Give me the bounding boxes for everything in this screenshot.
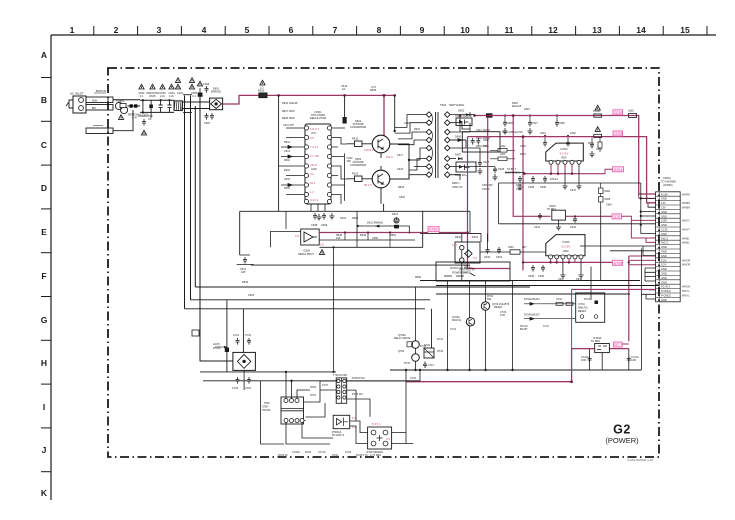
filter top wire	[140, 99, 174, 101]
svg-text:G: G	[41, 315, 48, 325]
svg-text:GND: GND	[661, 276, 667, 280]
svg-text:C713: C713	[450, 328, 457, 331]
page ref box R1	[613, 110, 623, 115]
svg-text:IC606: IC606	[303, 249, 310, 253]
secondary vertical tie 1	[469, 123, 471, 132]
black drop right of F602	[393, 94, 396, 131]
svg-text:C646: C646	[538, 275, 545, 278]
horizontal bus y265	[251, 264, 470, 266]
svg-text:Q705: Q705	[398, 350, 405, 353]
labels near Q705	[404, 345, 427, 365]
svg-text:9V2-2: 9V2-2	[661, 236, 668, 240]
secondary output wires	[450, 115, 495, 180]
magenta vertical up from bottom rail	[571, 289, 573, 348]
svg-text:C652: C652	[596, 148, 603, 151]
D605 C624 labels above busA	[512, 102, 530, 111]
IC604 label	[547, 205, 556, 211]
label cluster right of thermistor	[128, 113, 149, 120]
13.2V rail filter cap 2	[527, 114, 538, 133]
T602 secondary pins (right col, diamonds)	[445, 112, 451, 178]
IC603 body	[546, 143, 584, 161]
svg-text:5.2V: 5.2V	[661, 258, 667, 262]
protector label below	[459, 266, 474, 275]
svg-text:2.1 130: 2.1 130	[310, 154, 319, 158]
svg-text:C6: C6	[148, 117, 152, 121]
svg-text:BATON: BATON	[96, 89, 106, 93]
svg-text:C606: C606	[203, 82, 210, 86]
13.2V REG rail caps	[540, 132, 576, 147]
svg-text:WH/GY: WH/GY	[682, 220, 691, 223]
svg-text:C701: C701	[233, 334, 240, 337]
svg-text:AC-ALT: AC-ALT	[661, 285, 670, 289]
svg-text:L602: L602	[500, 145, 506, 148]
horizontal bus y287	[195, 286, 530, 288]
T602 primary pins (left col, diamonds)	[426, 112, 432, 178]
feedback junction dot	[466, 231, 469, 234]
mid bus over IC601 bottom	[240, 210, 384, 212]
svg-text:7.2 4.1: 7.2 4.1	[310, 145, 319, 149]
svg-text:WH/YL: WH/YL	[682, 290, 690, 293]
resistor chain x600	[599, 183, 613, 207]
left drop wire to bottom rail	[261, 381, 284, 444]
black feedback lower line	[270, 232, 415, 248]
vertical from mid bus left	[239, 211, 241, 255]
cap glyphs on drops	[588, 356, 592, 363]
horizontal bus y300	[191, 299, 431, 301]
svg-text:IC603: IC603	[561, 147, 568, 151]
svg-text:D706 R724: D706 R724	[352, 377, 365, 380]
svg-text:2.5: 2.5	[295, 234, 299, 238]
IC604 wires	[558, 220, 560, 224]
svg-text:ESAC25: ESAC25	[512, 105, 522, 108]
svg-text:WH/OR: WH/OR	[682, 259, 691, 262]
bridge rectifier D601	[210, 98, 223, 110]
svg-text:R628: R628	[352, 217, 359, 220]
magenta stub to IC703 left	[584, 348, 595, 350]
svg-text:C632: C632	[570, 132, 576, 135]
junction on rail	[628, 261, 630, 263]
caps near IC604	[538, 213, 577, 230]
IC604 magenta out	[565, 215, 612, 217]
AC arrow near bridge	[213, 343, 227, 348]
svg-text:SWITCHING: SWITCHING	[449, 103, 464, 107]
junction	[512, 114, 515, 117]
svg-text:CONVERTER: CONVERTER	[350, 125, 366, 129]
CN601 body	[656, 192, 681, 302]
C709 label	[500, 311, 549, 331]
magenta feedback line continuation	[439, 232, 468, 234]
svg-text:C718: C718	[345, 451, 352, 454]
cable W2 lower	[86, 105, 113, 111]
svg-text:6.2 5V: 6.2 5V	[562, 245, 571, 249]
magenta feedback line	[319, 232, 428, 234]
svg-text:GND: GND	[661, 214, 667, 218]
caps junction dots	[539, 215, 576, 217]
svg-text:1.2: 1.2	[310, 190, 314, 194]
vert wires G row	[470, 281, 513, 370]
filter shunt C602	[142, 99, 144, 113]
svg-text:C609: C609	[321, 223, 328, 227]
warning + fuse on second bus	[594, 127, 602, 138]
svg-text:C714: C714	[428, 364, 434, 367]
svg-text:ELECTRICAL: ELECTRICAL	[505, 172, 521, 175]
svg-text:4R7: 4R7	[522, 246, 527, 249]
svg-text:VCC: VCC	[311, 132, 316, 135]
protector box	[455, 242, 480, 263]
left ruler letters	[41, 50, 48, 498]
filter component labels	[138, 91, 197, 98]
svg-text:C707: C707	[322, 384, 329, 387]
junction dots on y370	[414, 369, 513, 371]
L602 choke	[490, 149, 515, 153]
svg-text:D615: D615	[149, 94, 156, 98]
svg-text:B: B	[41, 95, 47, 105]
fusible resistor R615 black box	[198, 88, 203, 97]
svg-text:D720: D720	[424, 344, 431, 347]
svg-text:C613: C613	[284, 150, 291, 153]
IC601 internal magenta pin voltages	[310, 127, 320, 202]
bridge rectifier D701	[233, 352, 256, 390]
svg-text:13V: 13V	[661, 206, 666, 210]
labels above protector	[455, 236, 479, 239]
junction dots under IC603	[523, 173, 573, 175]
svg-text:130.6 V: 130.6 V	[364, 148, 374, 152]
IC604 body	[552, 210, 566, 220]
magenta stub to ref R6	[622, 343, 629, 345]
GND feeder bus (from y=183 line)	[641, 183, 656, 234]
svg-text:C653: C653	[248, 294, 255, 297]
IC703 pin drops	[590, 349, 629, 370]
left feed bus top junction	[277, 94, 280, 97]
svg-text:WH/BN: WH/BN	[682, 207, 690, 210]
warning triangle row	[139, 84, 144, 89]
svg-text:G704: G704	[614, 168, 622, 172]
junction T603 feeds	[285, 371, 293, 382]
svg-text:WH/BL: WH/BL	[682, 242, 690, 245]
svg-text:0.3: 0.3	[473, 256, 477, 260]
left ruler line	[50, 35, 52, 500]
svg-text:5: 5	[245, 25, 250, 35]
svg-text:R733: R733	[404, 362, 411, 365]
svg-text:C625: C625	[483, 161, 490, 164]
svg-text:WH: WH	[92, 99, 97, 103]
boxes under bridge	[232, 377, 252, 390]
feed bus stubs left of T602	[395, 127, 401, 144]
svg-text:DIGITAL: DIGITAL	[452, 319, 462, 322]
svg-text:131.8: 131.8	[310, 163, 317, 167]
svg-text:POWER SW: POWER SW	[452, 271, 467, 275]
svg-text:D606: D606	[455, 136, 462, 139]
IC702 label	[366, 451, 383, 457]
svg-text:13: 13	[592, 25, 602, 35]
PH601 label	[332, 431, 345, 437]
T604 driver transformer	[333, 374, 348, 403]
svg-text:GND: GND	[661, 298, 667, 302]
T603 transformer	[281, 397, 304, 424]
svg-text:RELAY DRIVE: RELAY DRIVE	[394, 337, 411, 340]
long vertical from reg area down to G bus	[600, 206, 602, 281]
thermistor TH601	[115, 99, 127, 114]
diode pair labels row1	[524, 298, 591, 301]
caps right of protector	[484, 247, 503, 259]
svg-text:D603 1N4148: D603 1N4148	[282, 102, 298, 105]
R605 label on wire	[370, 85, 377, 92]
bottom bus y372	[200, 371, 336, 373]
svg-text:3: 3	[157, 25, 162, 35]
svg-text:131.6: 131.6	[386, 155, 394, 159]
horizontal bus y280 right	[420, 280, 640, 282]
svg-text:2: 2	[114, 25, 119, 35]
svg-text:C715: C715	[410, 377, 417, 380]
svg-text:F: F	[41, 271, 46, 281]
top edge wire of protector section	[420, 232, 481, 234]
filter shunt C603	[159, 99, 163, 112]
vertical into bridge top	[242, 309, 244, 353]
svg-text:C641: C641	[534, 226, 541, 229]
svg-text:64.3: 64.3	[310, 181, 316, 185]
svg-text:C608: C608	[311, 223, 318, 227]
error amp box	[301, 229, 320, 245]
magenta +B bus second stub row2	[639, 194, 656, 198]
svg-text:R660: R660	[588, 142, 595, 145]
svg-text:G705: G705	[615, 132, 623, 136]
vertical 356	[347, 390, 356, 421]
svg-text:R620: R620	[414, 128, 421, 131]
L603 choke	[490, 157, 515, 161]
bottom wires under T603	[286, 423, 333, 445]
svg-text:K: K	[41, 488, 48, 498]
IC704 box bottom-right of G	[576, 293, 605, 322]
svg-text:C702: C702	[245, 334, 252, 337]
Q602 transistor	[372, 170, 390, 188]
long vertical line A (cold side)	[184, 96, 186, 309]
svg-text:GND: GND	[661, 267, 667, 271]
Q705 Q706 transistors	[394, 334, 419, 361]
svg-text:T602: T602	[440, 103, 447, 107]
cap under relay coil	[423, 362, 434, 369]
svg-text:T601 (DRIVE) PRI: T601 (DRIVE) PRI	[502, 131, 523, 134]
svg-text:24K: 24K	[336, 237, 341, 240]
Q704 transistor	[452, 316, 475, 326]
wire from erroramp frame to 470	[423, 210, 470, 212]
svg-text:9.2 5V: 9.2 5V	[560, 152, 569, 156]
svg-text:C624: C624	[524, 108, 530, 111]
svg-text:SE5A2 PROT: SE5A2 PROT	[298, 252, 314, 256]
svg-text:2.2: 2.2	[260, 86, 264, 90]
warning by error amp	[319, 250, 324, 255]
top ruler line	[51, 34, 716, 36]
IC703 5V reg box	[591, 337, 609, 353]
svg-text:D704A BA157: D704A BA157	[524, 314, 540, 317]
junction dots under IC605	[522, 261, 570, 263]
S601 switch box bars	[183, 95, 192, 113]
svg-text:RESET: RESET	[494, 306, 503, 309]
Q602 base resistor box	[347, 172, 372, 182]
magenta stub D602 to bus	[473, 114, 476, 117]
caps under secondary lower	[517, 176, 522, 190]
ref box R7 (to E board)	[428, 227, 439, 232]
svg-text:H: H	[41, 358, 47, 368]
svg-text:R613: R613	[352, 172, 359, 176]
svg-text:D716: D716	[332, 454, 339, 457]
svg-text:13V: 13V	[661, 201, 666, 205]
svg-text:C611 47P: C611 47P	[283, 124, 294, 127]
svg-text:R656: R656	[415, 276, 422, 279]
svg-text:D613: D613	[392, 213, 399, 216]
warning triangle below C601	[141, 130, 146, 135]
bridge D701 caps above	[233, 334, 252, 345]
feedback cap stubs	[344, 231, 391, 247]
small connector mark on vertical A	[192, 330, 199, 336]
svg-text:R610: R610	[284, 141, 291, 144]
labels under IC603	[528, 178, 577, 192]
labels near IC604	[534, 226, 577, 229]
svg-text:C637: C637	[570, 189, 577, 192]
wires PH601-IC702	[350, 421, 368, 444]
magenta bottom rail	[406, 349, 595, 382]
magenta +B bus (13.2V line)	[475, 116, 656, 195]
filter shunt varistor	[149, 100, 153, 112]
svg-text:C: C	[41, 140, 47, 150]
CN601 header	[661, 177, 676, 187]
svg-text:C629: C629	[559, 122, 565, 125]
D607 rectifier	[455, 153, 462, 161]
secondary cap stubs	[478, 160, 505, 173]
svg-text:WH/BL: WH/BL	[682, 237, 690, 240]
page ref box R2	[613, 131, 623, 136]
svg-text:P-ON(1): P-ON(1)	[661, 289, 671, 293]
svg-text:WH/OR: WH/OR	[682, 264, 691, 267]
svg-text:C607: C607	[204, 121, 211, 125]
svg-text:G706: G706	[614, 261, 622, 265]
Q601 transistor	[372, 135, 390, 153]
gnd under caps	[477, 168, 482, 174]
vertical from bus A down	[226, 300, 228, 372]
primary feed wires into T602 left pins	[401, 115, 427, 179]
relay RY601 box	[436, 262, 510, 281]
svg-text:(CN502): (CN502)	[663, 184, 673, 187]
svg-text:215V: 215V	[661, 219, 667, 223]
IC702 right riser to H bus	[405, 370, 407, 382]
snubber network labels right of Q601	[404, 122, 421, 131]
C614 component left	[240, 257, 247, 274]
svg-text:C634: C634	[496, 256, 503, 259]
svg-text:BK: BK	[92, 106, 96, 110]
svg-text:R725 1K: R725 1K	[278, 454, 288, 457]
svg-text:WH/GN: WH/GN	[682, 286, 691, 289]
svg-text:P-ON(2): P-ON(2)	[661, 294, 671, 298]
svg-text:G703: G703	[615, 111, 623, 115]
svg-text:R726: R726	[305, 451, 312, 454]
D606 rectifier mid	[450, 136, 466, 142]
svg-text:47M: 47M	[500, 314, 505, 317]
svg-text:21.5V: 21.5V	[661, 228, 668, 232]
IC601 internal black marks	[311, 132, 317, 171]
svg-text:D604: D604	[284, 169, 291, 172]
ST-BY label left	[505, 168, 521, 175]
IC605 body	[546, 235, 585, 256]
13.2V rail filter cap 1	[502, 114, 513, 133]
IC601 right pin out wires	[332, 128, 347, 204]
svg-text:E: E	[41, 227, 47, 237]
svg-text:IC605: IC605	[563, 240, 570, 244]
svg-text:WH/BN: WH/BN	[682, 202, 690, 205]
svg-text:C704: C704	[245, 387, 252, 390]
Q601 collector wire right	[390, 144, 409, 179]
L604 label left of IC605	[508, 246, 527, 249]
svg-text:D602: D602	[458, 109, 465, 113]
row22-24 feeder	[641, 286, 655, 300]
svg-text:IC602 PHOTO: IC602 PHOTO	[455, 114, 472, 118]
page ref box R4	[612, 214, 622, 219]
svg-text:A 13V: A 13V	[661, 192, 668, 196]
magenta from ref R4 to row7	[622, 216, 656, 220]
svg-text:C619: C619	[404, 122, 411, 125]
svg-text:0.1: 0.1	[192, 94, 196, 98]
junction dot on magenta	[383, 94, 386, 97]
warning triangle under thermistor	[118, 115, 123, 120]
magenta down to rows 11-12	[631, 220, 655, 242]
wire AC neutral dashes	[128, 105, 141, 107]
secondary labels column	[476, 129, 526, 156]
filter bottom wire	[140, 111, 174, 113]
svg-text:2A: 2A	[342, 87, 345, 91]
ground stub below filter	[150, 112, 152, 118]
warning above F602	[260, 80, 265, 85]
long vertical line C	[194, 106, 196, 287]
svg-text:PS601: PS601	[593, 110, 601, 113]
magenta rail under IC603	[525, 173, 606, 175]
svg-text:4.7V REG: 4.7V REG	[370, 454, 381, 457]
cable W1 upper	[86, 97, 113, 103]
svg-text:D607: D607	[455, 153, 462, 157]
svg-text:GND: GND	[661, 223, 667, 227]
svg-text:GND: GND	[661, 197, 667, 201]
Q703 transistor	[481, 302, 509, 310]
svg-text:C617: C617	[397, 154, 404, 157]
svg-text:C638 470: C638 470	[452, 186, 463, 189]
ground symbols mid	[316, 214, 321, 220]
magenta second bus (13.2V REG line)	[468, 137, 656, 203]
svg-text:R608 150K: R608 150K	[282, 117, 295, 120]
magenta vertical to Q601	[383, 95, 385, 135]
svg-text:65.4 V: 65.4 V	[364, 183, 372, 187]
horizontal long wire y370	[390, 369, 641, 371]
svg-text:11: 11	[505, 25, 514, 35]
svg-text:9V2-2: 9V2-2	[661, 241, 668, 245]
left ruler ticks	[41, 78, 51, 472]
svg-text:RESET: RESET	[578, 310, 587, 313]
svg-text:C627: C627	[532, 122, 538, 125]
row4 feed corner	[648, 204, 656, 208]
IC601 left pins	[304, 126, 308, 204]
IC601 right pins	[327, 126, 331, 204]
svg-text:R607 150K: R607 150K	[282, 110, 295, 113]
svg-text:L605: L605	[628, 110, 634, 113]
svg-text:C642: C642	[570, 226, 577, 229]
line choke L601	[174, 101, 183, 111]
vertical 447 G-H	[447, 281, 449, 370]
svg-text:5V REG: 5V REG	[591, 340, 600, 343]
wire W3 up to thermistor	[113, 110, 133, 131]
T602 core lines	[436, 112, 438, 178]
svg-text:C618: C618	[397, 168, 404, 171]
relay coil right of Q706	[424, 344, 434, 358]
bottom bus y381	[203, 380, 420, 382]
svg-text:GND: GND	[661, 280, 667, 284]
AC inlet connector	[66, 96, 86, 113]
svg-text:R664: R664	[605, 190, 611, 193]
